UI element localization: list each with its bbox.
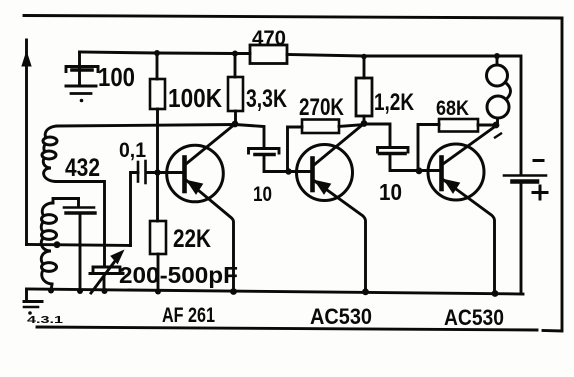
battery short plate xyxy=(513,179,538,184)
svg-text:AC530: AC530 xyxy=(310,304,372,329)
variable capacitor top bracket xyxy=(93,267,120,271)
svg-text:100: 100 xyxy=(98,62,135,92)
transistor Q2 emitter arrow xyxy=(315,181,331,195)
svg-text:68K: 68K xyxy=(436,97,469,120)
svg-text:0,1: 0,1 xyxy=(119,139,146,162)
resistor R 3,3K stub bottom xyxy=(234,111,237,124)
resistor R 1,2K xyxy=(356,78,372,116)
capacitor fixed bottom plate xyxy=(66,211,95,214)
capacitor C2 10 stub xyxy=(264,157,312,172)
battery minus sign xyxy=(534,159,543,162)
ground hook left xyxy=(25,289,28,299)
capacitor C 0,1 right plate xyxy=(144,161,147,183)
earphone connecting arc xyxy=(506,83,511,100)
svg-text:470: 470 xyxy=(252,27,286,50)
wire coupling C3 top xyxy=(364,124,390,147)
resistor R 1,2K stub top xyxy=(363,57,366,79)
svg-text:AF 261: AF 261 xyxy=(162,304,215,327)
resistor R 100K stub top xyxy=(156,53,159,79)
svg-text:10: 10 xyxy=(379,179,402,205)
battery plus sign xyxy=(533,186,547,199)
node 68K-collector junction dot xyxy=(493,122,500,129)
earphone circle 1 xyxy=(487,65,508,86)
supply rail left xyxy=(80,52,251,54)
border frame top xyxy=(24,16,562,19)
transistor Q3 collector xyxy=(443,127,495,165)
coil L1 bottom lead xyxy=(56,182,105,267)
svg-text:4.3.1: 4.3.1 xyxy=(27,315,64,326)
node supply-earphone dot xyxy=(494,53,500,59)
resistor R 68K right lead xyxy=(478,124,496,127)
transistor Q3 base bar xyxy=(439,158,444,190)
resistor R 270K xyxy=(302,120,339,134)
ground dot xyxy=(28,311,32,315)
node bus Q3 dot xyxy=(492,290,499,297)
resistor R 270K right lead xyxy=(339,125,364,127)
transistor Q2 collector xyxy=(314,124,364,166)
resistor R 22K stub bottom xyxy=(157,254,160,292)
border frame right xyxy=(543,18,562,331)
capacitor 100 inner plate xyxy=(72,68,92,72)
node bus capfixed dot xyxy=(77,288,83,294)
capacitor 100 top bracket xyxy=(66,67,98,72)
node Q1 collector junction dot xyxy=(232,121,239,128)
wire base T1 xyxy=(146,171,184,174)
coil L2 bottom lead xyxy=(51,284,52,291)
transistor Q2 emitter xyxy=(314,181,366,292)
earphone circle 2 xyxy=(487,96,509,118)
capacitor C2 10 plate xyxy=(255,153,274,157)
coil L1 432 top lead xyxy=(57,125,235,127)
transistor Q3 emitter xyxy=(443,180,495,294)
capacitor 100 ground plate xyxy=(66,85,96,88)
supply rail right xyxy=(287,55,521,175)
capacitor 100 ground dot xyxy=(80,99,84,103)
stray tick xyxy=(495,134,501,138)
capacitor 100 stub xyxy=(78,52,81,85)
resistor R 470 xyxy=(250,45,287,64)
svg-text:AC530: AC530 xyxy=(444,305,504,330)
node bus coil dot xyxy=(48,288,54,294)
earphone stub bottom xyxy=(496,118,499,124)
antenna lead xyxy=(25,40,28,245)
node bus 22K dot xyxy=(155,289,161,295)
ground bus xyxy=(27,289,524,294)
node bus varcap dot xyxy=(102,288,108,294)
svg-text:1,2K: 1,2K xyxy=(374,89,415,116)
capacitor fixed stub bottom xyxy=(79,215,82,292)
node supply-1,2K dot xyxy=(361,54,367,60)
transistor Q3 emitter arrow xyxy=(444,180,460,194)
coil L1 eye1 xyxy=(43,137,57,145)
ground bar2 xyxy=(24,306,38,309)
wire coupling C2 top xyxy=(235,125,264,148)
svg-text:432: 432 xyxy=(65,154,100,182)
transistor Q2 AC530 circle xyxy=(297,145,353,201)
variable capacitor arrowhead xyxy=(111,251,124,264)
coil L2 top lead xyxy=(53,199,79,204)
transistor Q1 base bar xyxy=(182,158,187,192)
coil L1 eye2 xyxy=(42,151,56,159)
node coil tap dot xyxy=(54,241,61,248)
capacitor C3 10 bracket xyxy=(378,148,409,153)
node bus Q2 dot xyxy=(362,288,369,295)
capacitor 100 ground bar2 xyxy=(71,92,91,95)
coil L2 eye3 xyxy=(42,263,57,272)
node supply-100K dot xyxy=(154,50,160,56)
svg-text:10: 10 xyxy=(253,183,272,206)
node base-T3 dot xyxy=(416,167,423,174)
ground bar1 xyxy=(24,300,42,303)
svg-text:3,3K: 3,3K xyxy=(246,85,287,113)
capacitor fixed stub top xyxy=(77,199,80,208)
battery long plate xyxy=(504,174,546,177)
label line xyxy=(37,327,537,330)
wire riser to C 0,1 xyxy=(131,173,139,246)
transistor Q1 AF261 circle xyxy=(167,145,224,202)
resistor R 68K left lead xyxy=(418,125,439,171)
coil L2 eye1 xyxy=(42,215,57,224)
coil L2 xyxy=(41,203,53,284)
resistor R 3,3K xyxy=(228,77,243,111)
resistor R 1,2K stub bottom xyxy=(363,116,366,124)
transistor Q3 AC530 circle xyxy=(428,144,484,200)
capacitor C3 10 plate xyxy=(380,152,406,156)
variable capacitor stub bottom xyxy=(103,274,106,291)
resistor R 22K xyxy=(150,221,166,254)
coil L1 432 xyxy=(43,126,57,182)
resistor R 22K stub top xyxy=(156,173,159,222)
svg-text:200-500pF: 200-500pF xyxy=(119,262,238,288)
resistor R 68K xyxy=(439,119,478,132)
node base-T2 dot xyxy=(285,168,291,174)
capacitor C3 10 stub xyxy=(390,156,441,171)
variable capacitor arrow shaft xyxy=(91,257,118,293)
capacitor fixed top plate xyxy=(64,206,94,209)
svg-text:100K: 100K xyxy=(168,83,222,113)
node base-T1 dot xyxy=(154,169,160,175)
battery wire bottom xyxy=(520,184,523,294)
transistor Q1 collector xyxy=(186,124,235,164)
capacitor C 0,1 left plate xyxy=(137,162,140,182)
transistor Q1 emitter xyxy=(186,180,234,292)
wire node-A horizontal (antenna to base branch) xyxy=(27,245,131,246)
resistor R 3,3K stub top xyxy=(234,54,237,78)
resistor R 100K stub bottom xyxy=(156,109,159,173)
antenna arrowhead xyxy=(22,52,31,66)
capacitor C2 10 bracket xyxy=(249,149,280,154)
transistor Q1 emitter arrow xyxy=(187,181,203,195)
coil L2 eye2 xyxy=(42,231,57,240)
svg-text:270K: 270K xyxy=(299,94,345,121)
transistor Q2 base bar xyxy=(310,159,315,191)
earphone stub top xyxy=(496,57,499,66)
resistor R 270K left lead xyxy=(288,127,303,171)
node Q2 collector junction dot xyxy=(361,120,368,127)
resistor R 100K xyxy=(150,79,165,109)
variable capacitor bottom plate xyxy=(90,272,123,275)
svg-text:22K: 22K xyxy=(173,225,211,253)
node bus Q1 dot xyxy=(230,288,237,295)
node supply-3,3K dot xyxy=(232,51,238,57)
